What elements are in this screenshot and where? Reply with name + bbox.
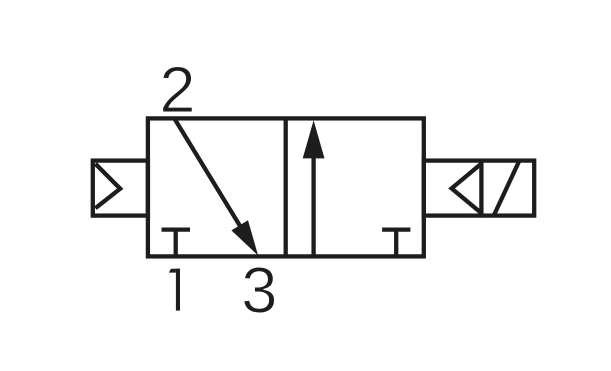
left position: blocked port 1 (T symbol) — [162, 230, 191, 257]
svg-text:3: 3 — [241, 254, 277, 327]
valve body box (two-position envelope) — [148, 118, 424, 256]
port label 3 — [241, 254, 277, 327]
left actuator: pneumatic pilot box — [93, 161, 148, 216]
right position: flow path arrow 1 to 2 — [303, 120, 325, 256]
solenoid triangle — [452, 164, 482, 214]
port label 2 — [159, 53, 195, 126]
right actuator: solenoid box — [424, 161, 534, 216]
right position: blocked port 3 (T symbol) — [382, 230, 410, 257]
left position: flow path arrow 2 to 3 — [175, 119, 258, 256]
left actuator chevron — [95, 164, 120, 208]
position divider line — [284, 118, 288, 256]
port label 1 (stem and flag drawn without foot serif) — [169, 269, 180, 311]
solenoid diagonal stroke — [494, 160, 520, 215]
svg-text:2: 2 — [159, 53, 195, 126]
